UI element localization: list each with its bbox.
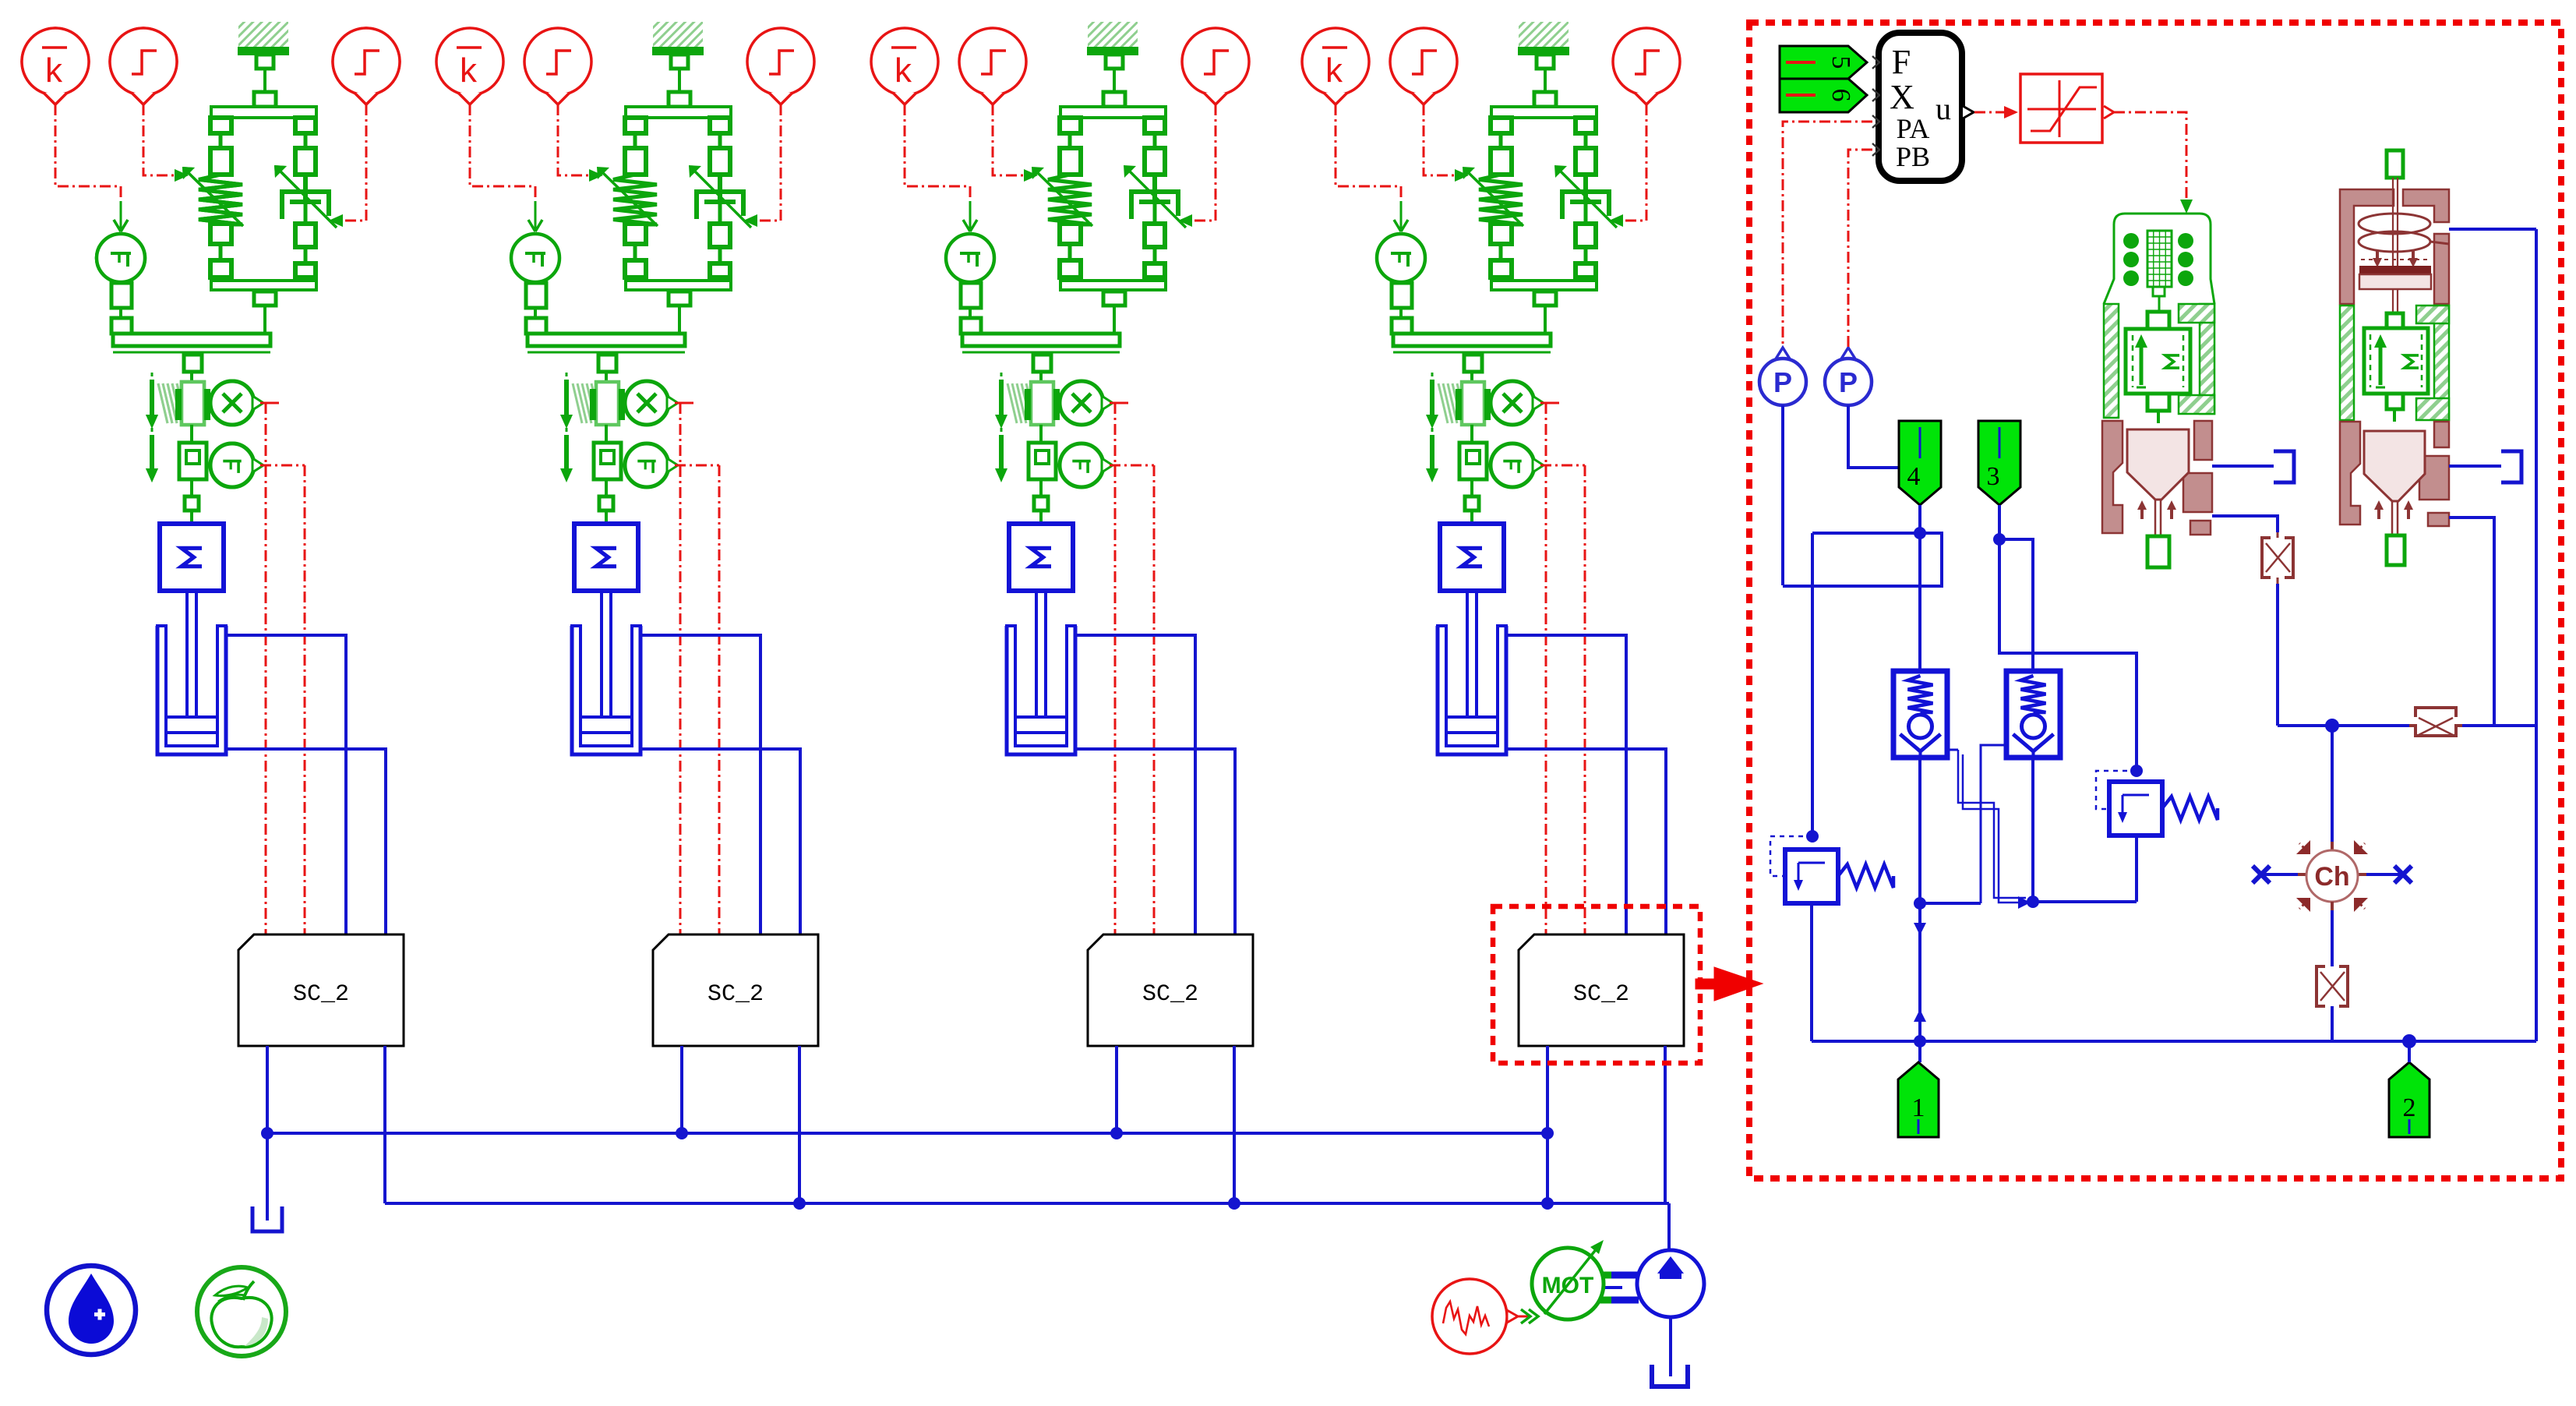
svg-text:P: P	[1773, 366, 1792, 398]
svg-text:6: 6	[1826, 89, 1855, 102]
svg-text:Ch: Ch	[2314, 862, 2349, 892]
svg-text:4: 4	[1907, 462, 1921, 491]
svg-text:F: F	[1892, 43, 1911, 81]
svg-text:1: 1	[1912, 1093, 1925, 1122]
svg-text:2: 2	[2403, 1093, 2416, 1122]
svg-text:PA: PA	[1897, 113, 1930, 144]
svg-text:u: u	[1936, 91, 1951, 126]
svg-text:PB: PB	[1896, 141, 1930, 172]
svg-text:3: 3	[1987, 462, 2000, 491]
svg-text:5: 5	[1826, 56, 1855, 69]
svg-text:X: X	[1890, 78, 1914, 116]
svg-text:P: P	[1839, 366, 1858, 398]
